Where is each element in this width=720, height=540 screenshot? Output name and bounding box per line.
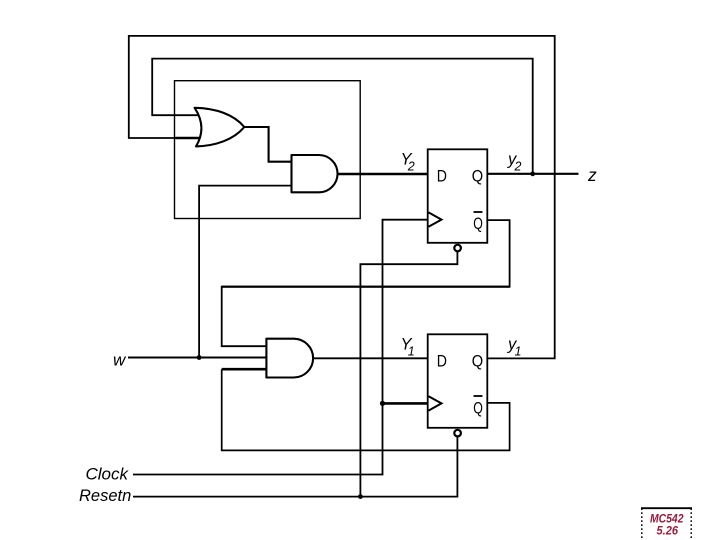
AND gate G3 (bottom, 3-input)	[266, 339, 313, 378]
wire: AND1 bottom input from w junction	[199, 186, 293, 358]
label y1	[507, 336, 521, 359]
wire: Resetn distribution	[133, 436, 457, 496]
wire: y1 feedback loop (Q of U2 up and around to OR bottom input)	[129, 36, 555, 359]
wire: AND2 bottom input stub (thick)	[222, 368, 267, 371]
badge MC542 5.26	[641, 508, 692, 540]
svg-text:w: w	[113, 351, 127, 370]
svg-text:Resetn: Resetn	[79, 487, 131, 505]
svg-text:1: 1	[408, 345, 415, 359]
AND gate G2 (top)	[292, 155, 338, 192]
svg-text:5.26: 5.26	[657, 526, 679, 538]
wire: Qbar1 long horizontal (thicker overdraw)	[222, 286, 510, 288]
wire: Clock distribution	[133, 220, 428, 475]
svg-text:D: D	[437, 167, 447, 186]
svg-text:1: 1	[515, 345, 522, 359]
svg-text:Q: Q	[473, 398, 483, 417]
OR gate G1	[195, 108, 245, 147]
wire: Resetn branch to U1 bubble	[360, 251, 457, 496]
svg-text:z: z	[587, 165, 597, 185]
wire: AND2 output to D of U2	[313, 357, 428, 359]
node: clock junction dot	[380, 401, 385, 406]
wire: OR bottom input stub (thick)	[176, 137, 204, 140]
svg-text:MC542: MC542	[650, 514, 684, 526]
U2 reset bubble	[454, 430, 461, 437]
gate enclosure box	[175, 81, 361, 219]
wire: y2 feedback loop (junction to OR top input)	[152, 59, 533, 174]
flip-flop U2 (bottom D FF)	[428, 334, 488, 428]
label Y2	[401, 151, 415, 174]
svg-text:Q: Q	[473, 214, 483, 233]
flip-flop U1 (top D FF)	[428, 149, 488, 243]
svg-text:2: 2	[407, 160, 415, 174]
wire: Q2 output to z	[487, 173, 578, 175]
wire: OR output to AND1 top input	[244, 127, 293, 162]
wire: AND1 output Y2 to D of U1 (thick)	[337, 173, 427, 176]
node: w junction dot	[197, 355, 202, 360]
wire: U1 Qbar feedback to AND2 top input	[222, 220, 510, 346]
svg-text:D: D	[437, 352, 447, 371]
svg-text:Clock: Clock	[86, 465, 130, 484]
node: Resetn junction dot	[358, 494, 363, 499]
svg-text:2: 2	[514, 160, 522, 174]
wire: U2 Qbar feedback to AND2 bottom input	[222, 369, 510, 450]
svg-text:Q: Q	[472, 167, 483, 186]
wire: w input line	[128, 356, 267, 358]
U1 reset bubble	[454, 245, 461, 252]
svg-text:Q: Q	[472, 352, 483, 371]
label y2	[507, 151, 522, 174]
node: y2 junction dot	[530, 171, 535, 176]
wire: clock tap to U2 (thick)	[383, 402, 428, 405]
label Y1	[401, 336, 415, 359]
